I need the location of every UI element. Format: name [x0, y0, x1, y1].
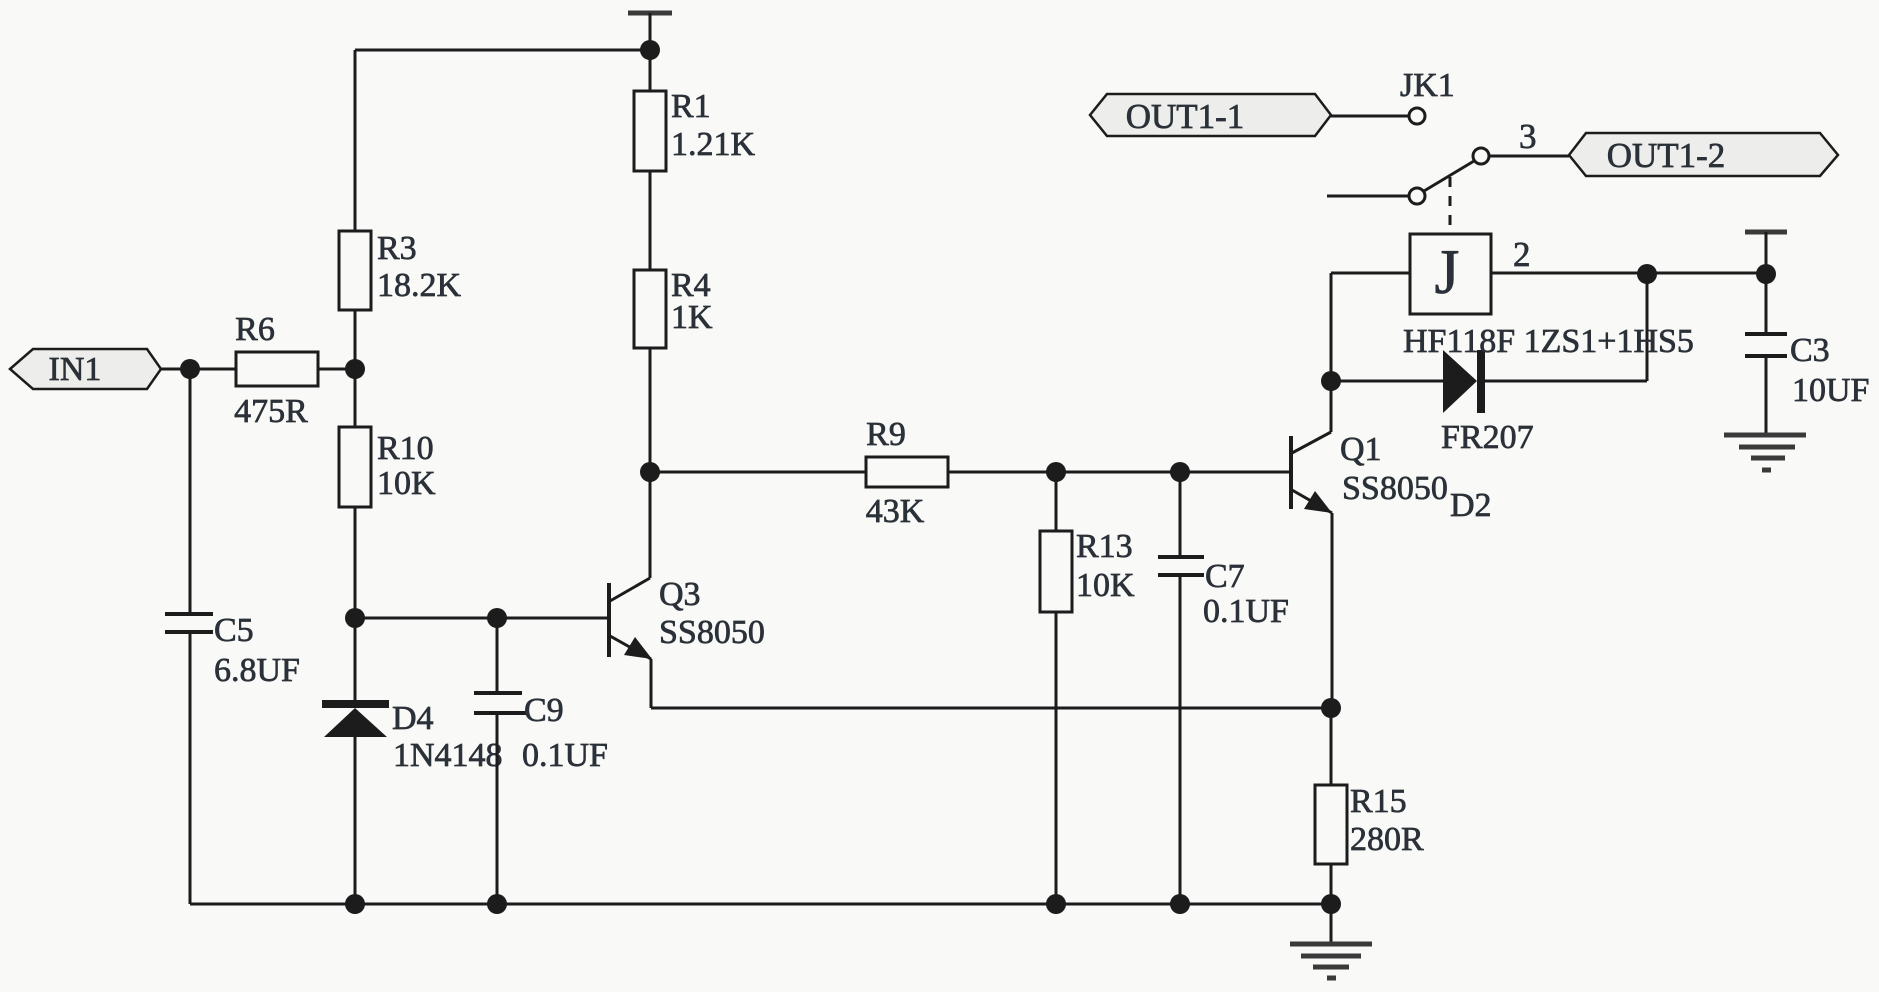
svg-text:R13: R13 [1076, 528, 1133, 565]
svg-text:1.21K: 1.21K [671, 126, 756, 163]
node junction bottom C7 [1170, 894, 1190, 914]
node junction bottom R13 [1046, 894, 1066, 914]
svg-text:0.1UF: 0.1UF [522, 737, 608, 774]
svg-text:R3: R3 [377, 230, 417, 267]
resistor R15 [1315, 708, 1424, 904]
svg-text:D4: D4 [392, 700, 434, 737]
svg-text:SS8050: SS8050 [659, 614, 765, 651]
node junction D4/base wire [345, 608, 365, 628]
wire R6 to node [318, 368, 355, 371]
node junction bottom D4 [345, 894, 365, 914]
svg-text:C3: C3 [1790, 332, 1830, 369]
diode D2 [1331, 350, 1647, 524]
capacitor C5 [165, 612, 300, 689]
svg-text:D2: D2 [1450, 487, 1492, 524]
connector flag OUT1-2 [1569, 133, 1838, 176]
wire R10 bottom [354, 507, 357, 618]
resistor R1 [634, 50, 756, 171]
node junction D2 anode [1321, 371, 1341, 391]
svg-text:1N4148: 1N4148 [393, 737, 503, 774]
diode D4 [322, 618, 503, 904]
svg-text:280R: 280R [1350, 821, 1424, 858]
switch pole contact [1409, 188, 1425, 204]
svg-text:43K: 43K [866, 493, 925, 530]
wire R3 bottom [354, 310, 357, 427]
wire R9 left [650, 471, 866, 474]
svg-text:R15: R15 [1350, 783, 1407, 820]
resistor R10 [339, 427, 436, 507]
svg-text:2: 2 [1513, 235, 1531, 274]
svg-text:OUT1-1: OUT1-1 [1126, 97, 1245, 136]
svg-text:3: 3 [1519, 117, 1537, 156]
node junction relay out [1637, 264, 1657, 284]
svg-text:SS8050: SS8050 [1342, 470, 1448, 507]
node junction R6/R3/R10 [345, 359, 365, 379]
svg-text:1K: 1K [671, 299, 713, 336]
svg-text:18.2K: 18.2K [377, 267, 462, 304]
wire Q3 emitter horizontal [651, 707, 1331, 710]
wire bottom rail [190, 903, 1331, 906]
switch throw contact pin 3 [1473, 148, 1489, 164]
svg-text:C5: C5 [214, 612, 254, 649]
wire R9 right to Q1 base [948, 471, 1289, 474]
wire Q3 base [355, 617, 607, 620]
svg-text:C9: C9 [524, 692, 564, 729]
svg-text:10K: 10K [377, 465, 436, 502]
wire C5 bottom vertical [189, 632, 192, 904]
node junction R4/R9/Q3 [640, 462, 660, 482]
svg-text:10UF: 10UF [1792, 372, 1869, 409]
switch stub wire [1327, 195, 1409, 198]
connector flag IN1 [10, 349, 161, 389]
wire R4 bottom [649, 348, 652, 472]
connector pin JK1 [1400, 67, 1455, 124]
node junction C7 [1170, 462, 1190, 482]
svg-text:J: J [1435, 236, 1460, 307]
wire Q1 emitter vertical [1331, 513, 1334, 708]
wire IN1 to R6 [161, 368, 236, 371]
wire C5 top vertical [189, 369, 192, 614]
wire Q3 emitter vertical [650, 659, 653, 708]
node junction bottom R15 [1321, 894, 1341, 914]
svg-text:R6: R6 [235, 311, 275, 348]
resistor R4 [634, 267, 713, 348]
resistor R3 [339, 230, 462, 310]
svg-text:Q3: Q3 [659, 576, 701, 613]
wire Q1 collector vertical [1330, 273, 1333, 432]
svg-text:Q1: Q1 [1340, 431, 1382, 468]
svg-text:6.8UF: 6.8UF [214, 652, 300, 689]
node junction at R1 top [640, 40, 660, 60]
svg-text:R9: R9 [866, 416, 906, 453]
svg-text:JK1: JK1 [1400, 67, 1455, 104]
wire D2 cathode up [1646, 274, 1649, 381]
svg-text:HF118F 1ZS1+1HS5: HF118F 1ZS1+1HS5 [1403, 323, 1694, 360]
ground symbol bottom [1290, 904, 1372, 978]
svg-text:R1: R1 [671, 88, 711, 125]
resistor R6 [234, 311, 318, 430]
capacitor C7 [1158, 472, 1289, 904]
svg-text:C7: C7 [1205, 558, 1245, 595]
svg-text:0.1UF: 0.1UF [1203, 593, 1289, 630]
wire R3 top vertical [354, 50, 357, 231]
svg-text:R10: R10 [377, 430, 434, 467]
resistor R13 [1040, 472, 1135, 904]
connector flag OUT1-1 [1090, 94, 1331, 136]
svg-text:OUT1-2: OUT1-2 [1607, 136, 1726, 175]
power symbol VCC top-left [628, 13, 672, 50]
transistor Q3 [609, 576, 765, 659]
relay J [1331, 234, 1766, 360]
switch blade [1424, 161, 1474, 191]
power symbol right [1745, 232, 1787, 274]
resistor R9 [866, 416, 948, 530]
svg-text:FR207: FR207 [1441, 419, 1534, 456]
wire R1-R4 [649, 171, 652, 270]
node junction C3/power [1756, 264, 1776, 284]
svg-text:IN1: IN1 [49, 351, 102, 388]
wire pin3 to OUT1-2 [1489, 155, 1569, 158]
node junction C9 [487, 608, 507, 628]
capacitor C3 [1745, 274, 1869, 435]
wire Q3 collector vertical [649, 472, 652, 578]
svg-text:475R: 475R [234, 393, 308, 430]
dashed actuator link [1449, 177, 1452, 232]
ground symbol right [1724, 435, 1806, 470]
capacitor C9 [474, 618, 608, 904]
svg-text:10K: 10K [1076, 567, 1135, 604]
wire OUT1-1 to JK1 [1331, 115, 1409, 118]
transistor Q1 [1291, 431, 1448, 513]
node junction R13 [1046, 462, 1066, 482]
node junction IN1/C5 [180, 359, 200, 379]
wire top horizontal [355, 49, 650, 52]
node junction bottom C9 [487, 894, 507, 914]
node junction emitter/R15 [1321, 698, 1341, 718]
